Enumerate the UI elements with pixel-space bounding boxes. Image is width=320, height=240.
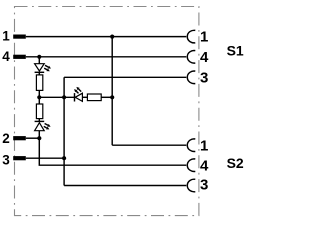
pin 1 terminal — [13, 35, 26, 39]
LED D3 — [74, 87, 82, 102]
svg-text:S1: S1 — [227, 43, 244, 59]
wire pin 3 — [26, 157, 64, 159]
junction pin 4 / LED branch — [37, 55, 41, 59]
junction mid branch / +V — [110, 95, 114, 99]
wire D3 to R3 — [82, 96, 87, 98]
junction node M — [37, 95, 41, 99]
wire pin2 junction to S2-4 — [39, 138, 186, 165]
resistor R1 — [36, 75, 42, 91]
junction pin1 / +V — [110, 35, 114, 39]
S2 contact 3 — [187, 179, 195, 192]
LED D1 — [35, 64, 51, 73]
wire D1 to R1 — [38, 72, 40, 75]
pin 4 terminal — [13, 55, 26, 59]
junction pin 2 — [37, 136, 41, 140]
wire pin 4 to S1-4 — [26, 56, 187, 58]
wire node M to LED D3 — [39, 96, 74, 98]
S1 contact 3 — [187, 71, 195, 84]
svg-text:1: 1 — [200, 29, 208, 46]
wire pin 2 — [26, 137, 40, 139]
wire R2 to LED D2 — [38, 119, 40, 122]
LED D2 — [35, 121, 51, 130]
svg-text:4: 4 — [200, 158, 209, 175]
wire R1 to node M — [38, 90, 40, 97]
S2 contact 1 — [187, 139, 195, 152]
svg-text:2: 2 — [2, 131, 10, 146]
resistor R3 — [87, 94, 101, 101]
svg-text:4: 4 — [2, 49, 10, 64]
wire R3 to +V junction — [101, 96, 112, 98]
junction pin 3 — [62, 156, 66, 160]
svg-text:3: 3 — [2, 153, 10, 168]
wire D2 to pin2 junction — [38, 131, 40, 139]
resistor R2 — [36, 104, 42, 119]
svg-text:1: 1 — [2, 29, 10, 44]
pin 3 terminal — [13, 156, 26, 160]
wire to S2-3 — [64, 185, 186, 187]
wire node M to R2 — [38, 97, 40, 104]
svg-text:S2: S2 — [227, 155, 244, 171]
wire to S2-1 — [112, 144, 186, 146]
wire +V vertical — [111, 37, 113, 146]
svg-text:4: 4 — [200, 49, 209, 66]
S2 contact 4 — [187, 159, 195, 172]
wire pin4 junction to LED D1 — [38, 57, 40, 64]
svg-text:1: 1 — [200, 138, 208, 155]
S1 contact 1 — [187, 30, 195, 43]
wire pin 1 to S1-1 — [26, 36, 187, 38]
svg-text:3: 3 — [200, 177, 208, 194]
junction 0V / node M branch — [62, 95, 66, 99]
wire to S1-3 — [64, 76, 186, 78]
pin 2 terminal — [13, 136, 26, 140]
svg-text:3: 3 — [200, 69, 208, 86]
S1 contact 4 — [187, 51, 195, 64]
wire 0V vertical — [63, 77, 65, 185]
